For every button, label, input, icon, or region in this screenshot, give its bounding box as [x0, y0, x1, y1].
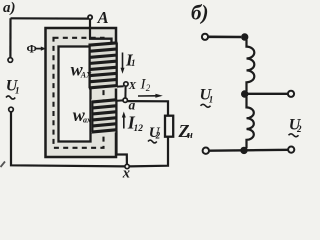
junction b tap	[241, 90, 248, 97]
core outer edge	[46, 28, 117, 157]
svg-text:X: X	[128, 80, 137, 92]
winding w_ax turns	[92, 100, 118, 133]
top wire	[11, 17, 89, 20]
svg-text:2: 2	[146, 83, 151, 93]
terminal U1 bottom	[9, 107, 14, 112]
flux arrow	[35, 47, 47, 51]
tap line a	[117, 99, 123, 101]
winding w_AX backing	[89, 43, 119, 89]
svg-text:2: 2	[155, 131, 161, 141]
svg-text:AX: AX	[80, 71, 92, 80]
winding w_ax backing	[91, 100, 118, 133]
tilde U1 (b)	[201, 104, 211, 107]
terminal x	[125, 164, 129, 168]
scan artifact bottom-left	[1, 162, 6, 168]
coil top connector	[89, 39, 112, 44]
tilde U2 (b)	[289, 134, 299, 137]
wire b top	[208, 35, 241, 38]
inductor upper section	[245, 37, 254, 94]
load Zн box	[165, 116, 173, 137]
current I2 arrow	[138, 94, 163, 98]
tilde U1	[6, 96, 15, 99]
left wire bottom	[11, 112, 125, 166]
core shaded band	[46, 28, 117, 157]
svg-text:1: 1	[209, 95, 214, 105]
svg-text:x: x	[122, 166, 130, 182]
current I12 arrow	[122, 112, 126, 129]
left wire	[9, 18, 11, 57]
winding w_AX turns	[89, 43, 118, 89]
svg-text:2: 2	[296, 124, 302, 134]
current I1 arrow	[121, 53, 125, 74]
terminal a	[123, 98, 127, 102]
svg-text:1: 1	[15, 86, 20, 96]
svg-text:б): б)	[191, 1, 208, 25]
svg-text:1: 1	[131, 58, 136, 68]
terminal U1 top	[8, 58, 13, 63]
svg-text:a: a	[129, 98, 136, 113]
terminal X	[124, 82, 128, 86]
wire A down	[89, 19, 91, 38]
core inner edge	[59, 47, 91, 142]
junction b bottom	[240, 147, 247, 154]
terminal b top-left	[202, 34, 208, 40]
tilde U2 (a)	[148, 140, 157, 143]
tap line X	[117, 85, 124, 87]
output wire a to load	[127, 101, 168, 116]
winding bottom wire	[117, 131, 127, 164]
wire X to a	[124, 86, 126, 98]
terminal A	[88, 15, 92, 19]
wire b bottom	[209, 149, 288, 152]
flux dashed line	[54, 38, 104, 148]
wire b tap	[245, 93, 288, 95]
svg-text:а): а)	[3, 0, 16, 16]
inductor lower section	[244, 94, 254, 150]
svg-text:ax: ax	[83, 116, 91, 125]
junction b top	[241, 33, 248, 40]
svg-text:A: A	[97, 8, 109, 27]
svg-text:12: 12	[134, 124, 144, 134]
wire load down	[129, 137, 168, 167]
terminal b bottom-left	[203, 148, 209, 154]
svg-text:н: н	[187, 130, 193, 141]
terminal b bottom-right	[288, 147, 294, 153]
terminal b mid-right	[288, 91, 294, 97]
